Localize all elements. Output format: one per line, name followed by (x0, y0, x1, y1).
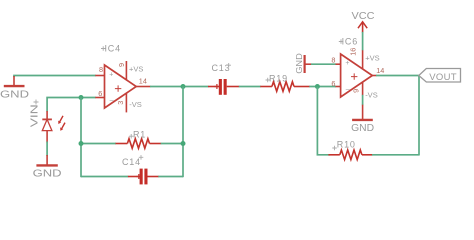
wire: C14 row left (81, 176, 128, 178)
wire: IC4 output to C13 (150, 86, 208, 88)
wire: feedback riser right of IC6 (418, 76, 420, 156)
wire: R1 row right (161, 143, 183, 145)
wire: R10 feedback left riser (317, 87, 329, 155)
svg-text:GND: GND (294, 53, 304, 74)
svg-text:C14: C14 (122, 157, 141, 167)
wire: C14 row right (158, 176, 183, 178)
ground GND2 (below photodiode) (33, 155, 62, 179)
capacitor C13 (208, 79, 239, 95)
capacitor C14 (128, 169, 159, 185)
net flag VOUT (419, 69, 461, 83)
IC4 pin 8 lead (95, 75, 104, 77)
IC4 +VS pin (125, 61, 127, 80)
resistor R10 (328, 150, 372, 160)
IC6 +VS pin (362, 50, 364, 69)
junction: feedback tap on IC4 output (181, 84, 186, 89)
svg-text:R19: R19 (269, 73, 288, 83)
wire: right feedback riser (182, 87, 184, 178)
svg-text:VCC: VCC (352, 11, 375, 22)
origin cross IC6 (339, 39, 344, 44)
ground label GND (rotated, at IC6 pin 8) (294, 53, 312, 74)
origin cross IC4 (101, 46, 106, 51)
wire: photodiode anode to GND2 (46, 142, 48, 157)
wire: R10 to feedback riser (372, 154, 419, 156)
svg-text:+: + (109, 71, 113, 78)
origin cross R10 (332, 146, 337, 151)
IC6 pin 8 lead (336, 63, 341, 65)
svg-text:IC6: IC6 (342, 37, 358, 47)
junction: feedback tap on IC4 pin 6 net (79, 95, 84, 100)
svg-text:+VS: +VS (365, 53, 379, 62)
svg-text:9: 9 (352, 89, 361, 93)
svg-text:9: 9 (117, 63, 126, 67)
junction: R1 left (79, 141, 84, 146)
svg-text:GND: GND (0, 90, 29, 101)
svg-text:-VS: -VS (129, 100, 142, 109)
junction: R10 tap on IC6 pin 6 net (315, 84, 320, 89)
svg-text:IC4: IC4 (105, 44, 121, 54)
wire: GND label to IC6 pin 8 (311, 63, 336, 65)
svg-text:-VS: -VS (365, 91, 378, 100)
svg-text:–: – (346, 86, 350, 93)
IC6 output pin 14 lead (372, 75, 376, 77)
IC6 -VS pin (362, 82, 364, 95)
svg-text:VIN: VIN (30, 104, 41, 127)
svg-text:R10: R10 (337, 140, 356, 150)
ground GND1 (top-left) (0, 76, 29, 101)
wire: GND1 to IC4 pin 8 (net at y=75.5) (14, 76, 96, 78)
wire: C13 to R19 (239, 86, 261, 88)
origin cross R1 (129, 134, 134, 139)
svg-text:14: 14 (139, 77, 147, 86)
op-amp IC6 body (341, 54, 373, 97)
supply VCC symbol (352, 11, 375, 33)
svg-text:GND: GND (33, 168, 62, 179)
ground GND3 (below IC6) (351, 105, 374, 135)
junction: R1 right (181, 141, 186, 146)
wire: left feedback riser (80, 98, 82, 178)
resistor R1 (116, 139, 162, 149)
photodiode D1 (42, 111, 52, 143)
origin cross C14 (139, 155, 144, 160)
IC4 output pin 14 lead (136, 86, 150, 88)
svg-text:16: 16 (348, 48, 357, 56)
origin cross C13 (227, 63, 232, 68)
resistor R19 (260, 82, 310, 92)
net label VIN (rotated) (30, 100, 41, 128)
svg-text:8: 8 (99, 65, 103, 74)
svg-text:14: 14 (376, 66, 384, 75)
wire: IC6 output to VOUT (376, 75, 419, 77)
IC6 pin 6 lead (336, 86, 341, 88)
wire: IC6 -VS to GND3 (362, 95, 364, 105)
wire: photodiode node to IC4 pin 6 (47, 98, 96, 112)
IC4 -VS pin (125, 93, 127, 113)
svg-text:R1: R1 (133, 130, 146, 140)
svg-text:+VS: +VS (129, 64, 143, 73)
op-amp IC4 body (105, 65, 137, 108)
photodiode light arrow 1 (58, 116, 63, 124)
svg-text:C13: C13 (212, 63, 231, 73)
svg-text:6: 6 (331, 79, 335, 88)
IC4 pin 6 lead (95, 97, 104, 99)
svg-text:3: 3 (116, 101, 125, 105)
svg-text:6: 6 (98, 89, 102, 98)
wire: VCC to IC6 +VS (362, 32, 364, 50)
svg-text:8: 8 (331, 56, 335, 65)
svg-text:–: – (110, 97, 114, 104)
svg-text:GND: GND (351, 123, 374, 134)
svg-text:+: + (345, 60, 349, 67)
origin cross R19 (266, 78, 271, 83)
wire: R19 to IC6 pin 6 (309, 86, 336, 88)
svg-text:VOUT: VOUT (429, 72, 457, 83)
wire: R1 row left (81, 143, 116, 145)
photodiode light arrow 2 (60, 123, 65, 131)
